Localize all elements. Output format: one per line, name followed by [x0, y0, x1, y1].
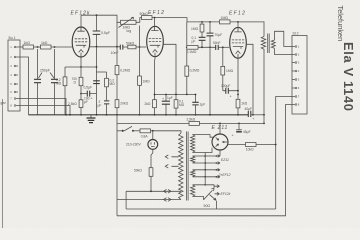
- resistor 0,1M (grid stopper): [187, 45, 216, 53]
- capacitor 1uF (screen decoupling V3): [192, 94, 205, 115]
- wire 10k to St2 pin7 line: [256, 144, 276, 146]
- node grid V2: [139, 46, 141, 48]
- wire fuse to transformer primary: [151, 131, 182, 133]
- resistor 1k (input b): [41, 45, 52, 49]
- wire to fuse: [133, 130, 140, 132]
- plug symbol on tap wire: [164, 190, 172, 194]
- svg-text:MΩ: MΩ: [56, 81, 62, 85]
- svg-text:EF12: EF12: [229, 10, 246, 16]
- capacitor 0,1uF: [192, 36, 206, 47]
- node: [96, 46, 98, 48]
- resistor 0,1M (V2 screen lower): [174, 100, 185, 115]
- wire secondary to St2 pin2: [275, 48, 293, 54]
- svg-text:1MΩ: 1MΩ: [191, 27, 199, 31]
- secondary S2 (EZ11 heater): [191, 156, 195, 163]
- svg-text:EF12k: EF12k: [71, 11, 91, 17]
- power transformer Tr1 primary: [179, 133, 183, 200]
- resistor 0,2M (interstage divider): [175, 22, 200, 95]
- svg-text:0,2MΩ: 0,2MΩ: [190, 68, 200, 72]
- svg-text:MΩ: MΩ: [110, 82, 116, 86]
- wire EZ11 to 10k: [228, 144, 246, 146]
- wire Bu1 pin8: [20, 106, 70, 115]
- node j2: [54, 46, 56, 48]
- secondary S4 (EF12k heater): [191, 185, 195, 197]
- node grid chain: [186, 46, 188, 48]
- wire: [34, 46, 41, 48]
- svg-text:50kΩ: 50kΩ: [140, 12, 149, 16]
- transformer core: [187, 132, 189, 201]
- svg-text:0,2MΩ: 0,2MΩ: [120, 69, 130, 73]
- capacitor 10nF: [111, 45, 128, 55]
- svg-text:μF: μF: [98, 103, 102, 107]
- node mains plug stem: [152, 130, 154, 132]
- svg-text:1μF: 1μF: [200, 102, 206, 106]
- node: [96, 66, 98, 68]
- wire mains bottom: [117, 199, 181, 201]
- svg-text:log: log: [127, 29, 132, 33]
- node V3 anode: [237, 21, 239, 23]
- wire 50k to primary tap loop: [126, 190, 181, 192]
- capacitor (V1 anode decoupling): [93, 81, 100, 84]
- wire anode EF12k to pot: [81, 15, 121, 22]
- node on heater-bus riser: [275, 144, 277, 146]
- svg-text:1kΩ: 1kΩ: [24, 41, 31, 45]
- svg-text:2,5kΩ: 2,5kΩ: [68, 102, 77, 106]
- heater feed EF12k with hum pot 50 Ohm: [193, 185, 231, 209]
- wire to EF12 V3 top and output transformer: [230, 22, 264, 37]
- ground bus: [29, 114, 249, 116]
- B+ rail right: [199, 122, 264, 124]
- page edge line bottom-left: [2, 99, 4, 228]
- svg-text:250pF: 250pF: [40, 69, 50, 73]
- svg-text:50Ω: 50Ω: [204, 204, 211, 208]
- svg-text:MΩ: MΩ: [179, 103, 185, 107]
- wire heater bus left riser: [125, 191, 127, 209]
- resistor 2,5k (V1 cathode lower): [68, 94, 83, 115]
- svg-text:+: +: [232, 134, 234, 138]
- wire pot to 50k: [136, 18, 142, 23]
- wire grid chain V2: from 0,5uF column: [90, 46, 120, 48]
- resistor 50k (mains bleeder): [134, 149, 153, 191]
- capacitor 0,5uF: [93, 15, 110, 115]
- wire to V2 grid: [136, 46, 146, 48]
- svg-text:+: +: [162, 97, 164, 101]
- wire Bu1 pin2 down to ground bus: [20, 57, 29, 115]
- resistor 0,2M (V1 screen): [105, 72, 116, 100]
- wire cathode V1 row: [65, 57, 97, 67]
- capacitor 70uF: [207, 22, 223, 116]
- node bus junctions: [65, 114, 239, 116]
- node 45uF stem: [238, 123, 240, 125]
- node: [150, 190, 152, 192]
- node EF12 V2 anode: [154, 17, 156, 19]
- resistor 0,2M (V1 grid leak): [56, 67, 67, 115]
- wire St2 pin8 chassis loop: [117, 105, 292, 216]
- wire V3 cathode: [237, 59, 239, 100]
- wire pot wiper down to grid node: [139, 26, 141, 48]
- svg-text:+: +: [252, 117, 254, 121]
- resistor 1k (V3 cathode): [236, 99, 248, 115]
- capacitor 250pF (a): [34, 49, 41, 115]
- svg-text:1MΩ: 1MΩ: [221, 16, 229, 20]
- capacitor 2uF (screen decoupling): [98, 100, 110, 115]
- capacitor 100uF (V1 cathode bypass): [81, 86, 97, 104]
- svg-text:+: +: [91, 97, 93, 101]
- plug symbol on mains bottom: [164, 198, 172, 202]
- resistor 700 Ohm (V1 cathode): [72, 67, 83, 94]
- svg-text:0,5μF: 0,5μF: [84, 86, 93, 90]
- node on anode wire: [96, 14, 98, 16]
- svg-text:2,5kΩ: 2,5kΩ: [187, 117, 196, 121]
- wire Bu1 pin7: [20, 99, 66, 115]
- svg-text:1kΩ: 1kΩ: [241, 101, 247, 105]
- resistor 50k (to EF12 anode line): [142, 16, 153, 20]
- svg-text:Telefunken: Telefunken: [336, 6, 345, 42]
- capacitor 45uF (reservoir): [232, 123, 251, 137]
- node 1M column: [201, 21, 203, 23]
- capacitor 1uF (V2 cathode bypass): [162, 94, 173, 115]
- svg-text:210-230V: 210-230V: [126, 143, 141, 147]
- svg-text:0,8A: 0,8A: [141, 134, 149, 138]
- svg-text:+: +: [230, 95, 232, 99]
- wire 50k to EF12 top and onward: [152, 18, 220, 22]
- svg-text:Bu 1: Bu 1: [9, 36, 16, 40]
- secondary winding S1 (HV): [191, 135, 195, 153]
- resistor 0,2M (V2 grid series column): [115, 22, 131, 99]
- mains plug 210-230V: [126, 131, 158, 150]
- wire heater common: [204, 153, 206, 185]
- svg-text:10kΩ: 10kΩ: [246, 148, 254, 152]
- resistor 10k: [246, 143, 257, 152]
- svg-text:40μF: 40μF: [245, 107, 253, 111]
- wire V2 screen to right: [163, 44, 176, 99]
- potentiometer 1M log: [119, 17, 137, 33]
- wire grid of EF12k: [51, 46, 72, 48]
- svg-text:100μF: 100μF: [221, 84, 230, 88]
- resistor 1k (input a): [23, 45, 34, 49]
- heater feed EZ11: [193, 155, 229, 165]
- svg-text:EF12: EF12: [148, 10, 165, 16]
- wire S1 bottom to EZ11 anode: [193, 148, 213, 153]
- svg-text:μF: μF: [192, 39, 196, 43]
- svg-text:EZ11: EZ11: [221, 158, 229, 162]
- svg-text:0,1MΩ: 0,1MΩ: [187, 50, 197, 54]
- heater bus bottom: [126, 208, 276, 210]
- ground symbol: [87, 115, 96, 123]
- svg-text:50kΩ: 50kΩ: [126, 41, 135, 45]
- node B+ rail end: [263, 123, 265, 125]
- resistor 50k (V2 grid): [128, 45, 136, 49]
- wire input line 1: [20, 46, 23, 48]
- node EZ11 stem: [219, 123, 221, 125]
- svg-text:70μF: 70μF: [215, 33, 223, 37]
- resistor 1M (V3 grid feed): [220, 20, 231, 24]
- svg-text:EF12k: EF12k: [221, 192, 231, 196]
- svg-text:1MΩ: 1MΩ: [226, 69, 234, 73]
- svg-text:1μF: 1μF: [167, 96, 173, 100]
- wire secondary to St2 pin1: [275, 31, 293, 46]
- switch S1: [122, 126, 134, 131]
- node 70uF column: [209, 21, 211, 23]
- svg-text:1kΩ: 1kΩ: [41, 41, 48, 45]
- node: [154, 94, 156, 96]
- secondary S3 (EF12 heaters): [191, 170, 195, 177]
- wire cathode V2 row: [155, 60, 196, 100]
- capacitor 250pF (b): [39, 49, 59, 115]
- wire S1 top to EZ11 anode: [193, 135, 214, 138]
- svg-text:20kΩ: 20kΩ: [120, 102, 128, 106]
- wire screen row V1: [97, 71, 107, 73]
- output transformer Tr2: [261, 34, 275, 54]
- node j1: [37, 46, 39, 48]
- resistor 20k: [115, 100, 129, 115]
- svg-text:1MΩ: 1MΩ: [143, 79, 151, 83]
- node cathode bottom: [80, 93, 82, 95]
- svg-text:Ela V 1140: Ela V 1140: [341, 42, 356, 112]
- svg-text:45μF: 45μF: [243, 130, 251, 134]
- connector St2: [292, 32, 307, 115]
- tube EF12 V3: [229, 10, 246, 58]
- tube EF12 V2: [147, 10, 165, 60]
- resistor 1M (V2 grid leak): [138, 47, 150, 115]
- node B+ 40uF: [263, 114, 265, 116]
- node cathode V1: [80, 66, 82, 68]
- heater feed 2xEF12: [193, 169, 231, 179]
- svg-text:St 2: St 2: [293, 32, 299, 36]
- rectifier EZ11: [212, 123, 229, 155]
- wire mains top: [117, 130, 123, 132]
- wire V3 screen: [247, 44, 253, 115]
- wire power left column: [116, 115, 118, 216]
- svg-text:50kΩ: 50kΩ: [134, 168, 142, 172]
- resistor 1M (V3 coupling chain): [191, 22, 204, 37]
- tube EF12k V1: [71, 11, 91, 57]
- fuse 0,8A: [140, 129, 151, 138]
- wire primary bottom to B+ rail: [263, 50, 265, 123]
- svg-text:2×EF12: 2×EF12: [218, 173, 231, 177]
- svg-text:0,5μF: 0,5μF: [101, 31, 110, 35]
- resistor 2k (V2 cathode): [145, 100, 157, 115]
- capacitor 40uF (B+ filter): [245, 107, 265, 121]
- B+ rail to 2,5k: [117, 122, 189, 124]
- svg-text:μF: μF: [84, 100, 88, 104]
- resistor 1M (V3 grid leak): [221, 47, 234, 90]
- resistor 2,5k (B+ dropper): [187, 117, 200, 125]
- svg-text:2kΩ: 2kΩ: [145, 102, 151, 106]
- capacitor 100uF (V3 cathode bypass): [221, 84, 238, 99]
- node: [237, 90, 239, 92]
- primary taps: [165, 155, 178, 168]
- svg-text:50nF: 50nF: [213, 41, 221, 45]
- svg-text:gez: gez: [1, 101, 7, 105]
- wire St2 pin7 down to heater bus: [276, 97, 292, 210]
- capacitor 50nF: [213, 41, 229, 50]
- connector Bu1: [8, 36, 20, 111]
